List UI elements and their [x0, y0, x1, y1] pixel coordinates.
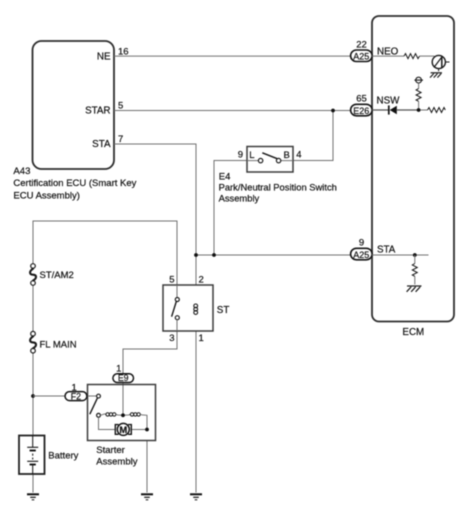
- switch contacts E4: [247, 153, 293, 163]
- wire F2 branch: [33, 395, 66, 397]
- node junction E9/coil: [121, 413, 125, 417]
- node junction STA x196: [194, 253, 198, 257]
- svg-text:1: 1: [116, 364, 121, 375]
- svg-text:ST: ST: [217, 305, 230, 316]
- node junction motor/ground: [145, 428, 149, 432]
- svg-text:M: M: [119, 424, 127, 435]
- resistor STA vertical: [412, 264, 417, 277]
- svg-text:Assembly: Assembly: [96, 456, 137, 467]
- wire between fuses: [32, 285, 34, 331]
- svg-text:E9: E9: [118, 373, 129, 383]
- svg-text:Starter: Starter: [96, 445, 125, 456]
- svg-text:5: 5: [169, 274, 174, 285]
- fuse FL MAIN: [30, 331, 36, 353]
- svg-text:A43: A43: [13, 166, 30, 177]
- wire E9 into starter: [122, 383, 124, 416]
- starter coil wire: [100, 413, 147, 430]
- svg-text:9: 9: [238, 150, 243, 161]
- fuse ST/AM2: [30, 264, 36, 286]
- svg-text:9: 9: [359, 238, 364, 249]
- wire STA horizontal to ECM: [196, 254, 351, 256]
- node junction battery/F2: [31, 394, 35, 398]
- resistor NEO: [404, 54, 420, 59]
- wire battery top loop to relay pin5: [33, 221, 177, 285]
- svg-text:ST/AM2: ST/AM2: [40, 270, 74, 281]
- ground battery: [27, 494, 39, 500]
- svg-text:E26: E26: [353, 106, 369, 116]
- svg-text:Park/Neutral Position Switch: Park/Neutral Position Switch: [219, 182, 337, 193]
- motor M: [115, 423, 131, 435]
- ECM internal STA wire: [372, 254, 429, 256]
- svg-text:ECM: ECM: [402, 327, 424, 338]
- diode NSW: [389, 105, 397, 114]
- svg-text:Certification ECU (Smart Key: Certification ECU (Smart Key: [13, 178, 136, 189]
- battery box: [19, 436, 45, 475]
- ECM internal NEO: wire: [372, 55, 404, 57]
- E4 switch box: [247, 147, 293, 173]
- ECM box: [372, 16, 454, 322]
- svg-text:A25: A25: [353, 250, 369, 260]
- svg-text:L: L: [249, 150, 254, 161]
- svg-text:3: 3: [169, 333, 174, 344]
- wire relay pin3 to E9: [123, 331, 177, 375]
- wire FL MAIN to battery: [32, 353, 34, 435]
- svg-text:1: 1: [72, 382, 77, 393]
- wire battery to ground: [32, 474, 34, 493]
- node junction STA x214: [212, 253, 216, 257]
- relay switch: [172, 285, 180, 331]
- svg-text:STA: STA: [92, 139, 111, 150]
- starter switch: [88, 394, 101, 417]
- svg-text:STAR: STAR: [85, 105, 110, 116]
- ECU A43 box: [33, 41, 115, 169]
- svg-text:5: 5: [118, 100, 123, 111]
- node junction STA ECM: [413, 253, 417, 257]
- svg-text:1: 1: [199, 333, 204, 344]
- connector oval A25 pin22: [351, 50, 373, 62]
- relay coil: [194, 304, 198, 314]
- connector oval E9: [113, 374, 134, 383]
- wire motor branch: [99, 417, 116, 429]
- connector oval F2: [65, 392, 87, 401]
- ground relay: [190, 494, 202, 500]
- node junction NSW: [417, 108, 421, 112]
- node junction STAR/E4: [331, 109, 335, 113]
- svg-text:4: 4: [296, 150, 301, 161]
- svg-text:ECU Assembly): ECU Assembly): [13, 190, 80, 201]
- svg-text:22: 22: [356, 39, 367, 50]
- svg-text:B: B: [283, 150, 289, 161]
- wire E4 pin4 to STAR net: [293, 111, 333, 161]
- wire STA from A43 down to relay: [114, 144, 196, 285]
- battery cells: [27, 436, 38, 475]
- svg-text:16: 16: [118, 46, 129, 57]
- relay ST box: [163, 285, 213, 331]
- ground starter: [141, 494, 153, 500]
- svg-text:FL MAIN: FL MAIN: [40, 340, 77, 351]
- svg-text:E4: E4: [219, 171, 231, 182]
- wire STAR net: [114, 110, 351, 112]
- resistor NSW vertical: [416, 89, 421, 102]
- connector oval A25 pin9: [351, 248, 373, 259]
- svg-text:Battery: Battery: [48, 451, 78, 462]
- svg-text:2: 2: [199, 274, 204, 285]
- svg-text:NE: NE: [97, 51, 111, 62]
- svg-text:NSW: NSW: [377, 96, 401, 107]
- wire NE net: [114, 55, 351, 57]
- ECM NSW terminal circle: [414, 77, 423, 88]
- resistor NSW horizontal: [420, 109, 427, 111]
- svg-text:7: 7: [118, 134, 123, 145]
- wire relay pin1 to ground: [195, 331, 197, 493]
- wire E4 pin9 down: [214, 161, 247, 256]
- svg-text:STA: STA: [377, 244, 396, 255]
- ground STA (slanted): [407, 286, 422, 292]
- wire starter to ground: [146, 441, 148, 493]
- ECM internal NSW wire: [372, 109, 389, 111]
- svg-text:65: 65: [356, 94, 367, 105]
- connector oval E26 pin65: [351, 104, 373, 116]
- starter assembly box: [88, 385, 156, 441]
- ground transistor (slanted): [430, 73, 442, 78]
- svg-text:A25: A25: [353, 52, 369, 62]
- svg-text:NEO: NEO: [377, 47, 399, 58]
- transistor Q: [432, 55, 449, 71]
- svg-text:Assembly: Assembly: [219, 192, 260, 203]
